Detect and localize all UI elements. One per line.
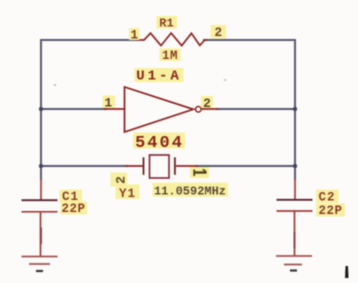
svg-text:1: 1 — [130, 29, 138, 43]
svg-text:2: 2 — [203, 96, 211, 111]
svg-text:22P: 22P — [318, 204, 342, 218]
svg-text:R1: R1 — [159, 17, 173, 31]
svg-text:2: 2 — [113, 176, 128, 184]
svg-text:1M: 1M — [162, 49, 178, 63]
svg-text:Y1: Y1 — [119, 187, 136, 201]
svg-text:22P: 22P — [61, 202, 85, 216]
svg-text:C2: C2 — [318, 191, 335, 205]
svg-text:U1-A: U1-A — [136, 69, 182, 85]
svg-text:5404: 5404 — [135, 134, 184, 153]
svg-text:1: 1 — [104, 95, 112, 110]
svg-text:11.0592MHz: 11.0592MHz — [154, 185, 226, 199]
svg-text:2: 2 — [214, 25, 222, 40]
